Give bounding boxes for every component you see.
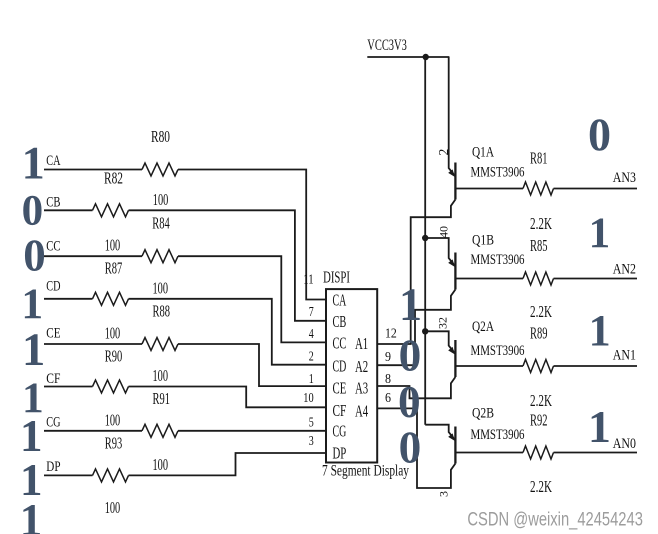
wire base Q1A to resistor R81 <box>455 188 523 190</box>
svg-text:R90: R90 <box>105 347 123 366</box>
svg-text:32: 32 <box>436 317 450 329</box>
wire DP row <box>44 474 93 476</box>
base bar Q1B <box>454 253 456 290</box>
resistor R89 body <box>523 360 554 373</box>
svg-text:1: 1 <box>20 411 43 461</box>
svg-text:MMST3906: MMST3906 <box>471 427 525 443</box>
collector wire Q2B <box>377 408 455 488</box>
svg-text:CD: CD <box>333 356 347 375</box>
wire CB to chip <box>129 210 327 320</box>
wire base Q2B to resistor R92 <box>455 452 523 454</box>
wire R89 to AN1 <box>554 365 638 367</box>
resistor body row CG <box>142 424 178 437</box>
emitter arrow Q2B <box>448 433 457 442</box>
wire CA row <box>44 169 142 171</box>
svg-text:CE: CE <box>46 325 60 341</box>
resistor body row CB <box>93 204 129 217</box>
wire base Q1B to resistor R85 <box>455 278 523 280</box>
resistor body row CA <box>142 163 178 176</box>
wire R81 to AN3 <box>554 188 638 190</box>
svg-text:2: 2 <box>436 149 451 156</box>
svg-text:6: 6 <box>385 391 391 406</box>
resistor R81 body <box>523 182 554 195</box>
svg-text:0: 0 <box>23 230 46 280</box>
svg-text:100: 100 <box>153 278 169 297</box>
svg-text:2.2K: 2.2K <box>530 302 552 321</box>
collector wire Q2A <box>377 377 455 398</box>
svg-text:100: 100 <box>105 236 121 255</box>
wire CF row <box>44 386 93 388</box>
wire CG to chip <box>178 430 326 432</box>
emitter arrow Q1A <box>448 169 457 178</box>
svg-text:MMST3906: MMST3906 <box>471 343 525 359</box>
emitter arrow Q2A <box>448 347 457 356</box>
svg-text:1: 1 <box>399 279 422 330</box>
svg-text:CC: CC <box>333 334 347 353</box>
svg-text:1: 1 <box>21 280 43 328</box>
svg-text:3: 3 <box>309 434 314 449</box>
svg-text:R89: R89 <box>530 324 548 343</box>
svg-text:2: 2 <box>309 349 314 364</box>
svg-text:CF: CF <box>333 401 347 420</box>
wire CE to chip <box>178 344 326 386</box>
svg-text:2.2K: 2.2K <box>530 477 552 496</box>
svg-text:R92: R92 <box>530 411 548 430</box>
resistor R85 body <box>523 272 554 285</box>
7-segment display DISPI <box>326 289 377 462</box>
svg-text:11: 11 <box>303 273 313 288</box>
svg-text:R87: R87 <box>105 259 123 278</box>
svg-text:Q2A: Q2A <box>472 319 494 335</box>
wire CA to chip <box>178 170 326 300</box>
svg-text:7: 7 <box>309 305 314 320</box>
collector wire Q1B <box>377 290 455 366</box>
svg-text:CG: CG <box>46 414 60 430</box>
wire CG row <box>44 430 142 432</box>
svg-text:1: 1 <box>22 325 45 376</box>
svg-text:8: 8 <box>385 372 391 387</box>
svg-text:A4: A4 <box>355 401 369 420</box>
svg-text:0: 0 <box>399 422 422 472</box>
svg-text:R91: R91 <box>153 389 171 408</box>
svg-text:MMST3906: MMST3906 <box>471 165 525 181</box>
svg-text:AN1: AN1 <box>613 348 636 364</box>
svg-text:2.2K: 2.2K <box>530 214 552 233</box>
svg-text:CF: CF <box>46 371 60 387</box>
svg-text:4: 4 <box>309 327 314 342</box>
wire VCC bus <box>367 56 449 58</box>
svg-text:R82: R82 <box>104 169 123 188</box>
transistor Q1A MMST3906 <box>449 57 455 175</box>
svg-text:1: 1 <box>22 138 45 189</box>
svg-text:A1: A1 <box>355 334 368 353</box>
svg-text:100: 100 <box>153 190 169 209</box>
wire CE row <box>44 343 142 345</box>
base bar Q2A <box>454 340 456 377</box>
svg-text:R93: R93 <box>105 433 123 452</box>
svg-text:A3: A3 <box>355 379 368 398</box>
svg-text:Q1B: Q1B <box>472 232 494 248</box>
svg-text:CG: CG <box>333 422 347 441</box>
wire CC to chip <box>178 256 326 342</box>
emitter arrow Q1B <box>448 259 457 268</box>
wire CD row <box>44 298 93 300</box>
svg-text:CA: CA <box>333 291 347 310</box>
svg-text:R80: R80 <box>151 127 170 146</box>
wire R92 to AN0 <box>554 452 638 454</box>
svg-text:CD: CD <box>46 279 60 295</box>
svg-text:Q2B: Q2B <box>472 406 494 422</box>
svg-text:CSDN @weixin_42454243: CSDN @weixin_42454243 <box>467 509 643 530</box>
svg-text:MMST3906: MMST3906 <box>471 252 525 268</box>
svg-text:1: 1 <box>589 210 611 257</box>
svg-text:1: 1 <box>20 495 43 534</box>
resistor body row CD <box>93 292 129 305</box>
svg-text:R84: R84 <box>152 214 170 233</box>
svg-text:VCC3V3: VCC3V3 <box>367 37 407 54</box>
svg-text:A2: A2 <box>355 357 368 376</box>
svg-text:DP: DP <box>333 443 347 462</box>
svg-text:0: 0 <box>399 330 422 380</box>
wire VCC rail <box>424 57 426 425</box>
resistor body row CC <box>142 250 178 263</box>
junction Q2A emitter tap <box>422 328 428 334</box>
collector wire Q1A <box>377 200 455 345</box>
svg-text:AN0: AN0 <box>613 436 636 452</box>
svg-text:0: 0 <box>398 377 421 427</box>
svg-text:100: 100 <box>105 324 121 343</box>
svg-text:5: 5 <box>309 415 314 430</box>
svg-text:0: 0 <box>588 109 611 160</box>
transistor Q2B MMST3906 <box>425 425 454 439</box>
wire CD to chip <box>129 299 327 365</box>
svg-text:Q1A: Q1A <box>472 145 494 161</box>
svg-text:2.2K: 2.2K <box>530 391 552 410</box>
svg-text:CA: CA <box>46 153 60 169</box>
wire CB row <box>44 209 93 211</box>
svg-text:1: 1 <box>589 306 611 355</box>
transistor Q1B MMST3906 <box>425 238 454 265</box>
svg-text:1: 1 <box>588 401 611 452</box>
svg-text:7 Segment Display: 7 Segment Display <box>322 463 409 480</box>
svg-text:100: 100 <box>153 455 169 474</box>
svg-text:10: 10 <box>303 391 313 406</box>
wire DP to chip <box>129 453 327 475</box>
svg-text:DISPI: DISPI <box>323 268 350 287</box>
resistor R92 body <box>523 446 554 459</box>
svg-text:CB: CB <box>46 194 60 210</box>
svg-text:R81: R81 <box>530 149 548 168</box>
svg-text:100: 100 <box>105 410 121 429</box>
resistor body row CF <box>93 380 129 393</box>
base bar Q1A <box>454 163 456 200</box>
svg-text:DP: DP <box>46 459 60 475</box>
svg-text:9: 9 <box>385 350 391 365</box>
svg-text:3: 3 <box>437 491 451 497</box>
wire base Q2A to resistor R89 <box>455 365 523 367</box>
svg-text:1: 1 <box>309 372 314 387</box>
resistor body row DP <box>93 469 129 482</box>
base bar Q2B <box>454 427 456 464</box>
svg-text:AN2: AN2 <box>613 262 636 278</box>
junction Q1B emitter tap <box>422 235 428 241</box>
svg-text:40: 40 <box>437 226 451 238</box>
wire CC row <box>44 255 142 257</box>
svg-text:CB: CB <box>333 312 347 331</box>
svg-text:R85: R85 <box>530 236 548 255</box>
wire R85 to AN2 <box>554 278 638 280</box>
svg-text:0: 0 <box>22 187 44 234</box>
resistor body row CE <box>142 338 178 351</box>
svg-text:CC: CC <box>46 238 60 254</box>
svg-text:R88: R88 <box>153 301 171 320</box>
svg-text:CE: CE <box>333 379 347 398</box>
wire CF to chip <box>129 387 327 408</box>
svg-text:AN3: AN3 <box>613 170 636 186</box>
svg-text:100: 100 <box>105 498 121 517</box>
svg-text:100: 100 <box>153 366 169 385</box>
transistor Q2A MMST3906 <box>425 331 454 352</box>
junction VCC <box>423 54 429 60</box>
svg-text:12: 12 <box>385 327 397 342</box>
